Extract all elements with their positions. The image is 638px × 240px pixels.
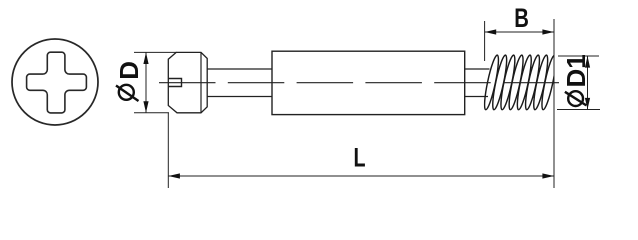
- svg-text:L: L: [353, 144, 365, 174]
- svg-text:B: B: [514, 3, 529, 34]
- svg-text:D1: D1: [561, 54, 591, 87]
- svg-text:D: D: [114, 61, 144, 80]
